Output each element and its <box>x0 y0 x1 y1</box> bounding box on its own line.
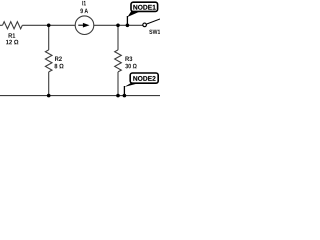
NODE2 callout tail <box>123 86 125 96</box>
wire top rail left stub <box>0 24 3 26</box>
wire bottom rail <box>0 95 160 97</box>
junction dot top R3 <box>116 24 120 28</box>
resistor R2 <box>45 50 52 72</box>
wire R3 branch upper <box>117 25 119 50</box>
current source I1 <box>75 16 94 35</box>
junction node A NODE1 anchor <box>126 24 130 28</box>
value 9 A <box>80 9 88 14</box>
label R1 <box>9 33 16 37</box>
NODE2 flag <box>130 73 158 83</box>
label I1 <box>82 1 86 5</box>
value 8 ohm <box>54 64 63 69</box>
resistor R1 <box>3 22 23 29</box>
wire top rail I1 to switch <box>94 24 143 26</box>
junction dot bottom R2 <box>47 94 51 98</box>
junction dot NODE2 anchor <box>123 94 127 98</box>
junction dot bottom R3 <box>116 94 120 98</box>
NODE1 flag <box>131 2 158 11</box>
label R2 <box>55 56 62 61</box>
resistor R3 <box>115 50 122 72</box>
wire top rail R1 to I1 <box>22 24 75 26</box>
wire R3 branch lower <box>117 72 119 96</box>
label SW1 <box>149 30 160 34</box>
switch SW1 <box>143 23 147 27</box>
value 30 ohm <box>125 64 136 69</box>
junction dot top R2 <box>47 24 51 28</box>
NODE1 callout tail <box>126 16 128 25</box>
wire R2 branch upper <box>48 25 50 50</box>
wire R2 branch lower <box>48 72 50 96</box>
label R3 <box>125 56 132 61</box>
value 12 ohm <box>6 40 18 45</box>
